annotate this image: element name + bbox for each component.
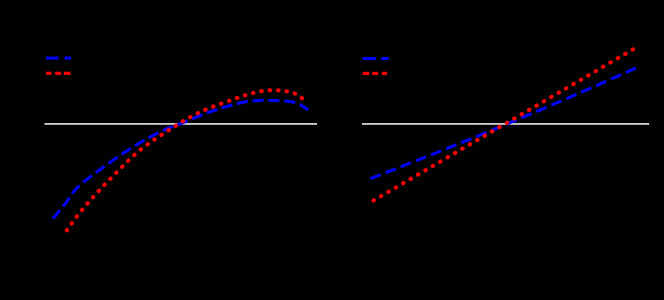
right panel zero axis white line bbox=[362, 123, 649, 125]
left panel zero axis white line bbox=[45, 123, 318, 125]
left panel legend red dotted sample bbox=[46, 72, 70, 75]
left panel legend blue dashed sample bbox=[46, 57, 71, 60]
right panel legend blue dashed sample bbox=[363, 57, 389, 60]
right panel legend red dotted sample bbox=[363, 72, 387, 75]
right panel blue dashed curve bbox=[370, 68, 635, 179]
left panel blue dashed curve bbox=[53, 100, 308, 218]
left panel red dotted curve bbox=[66, 90, 303, 231]
right panel red dotted curve bbox=[372, 48, 635, 201]
